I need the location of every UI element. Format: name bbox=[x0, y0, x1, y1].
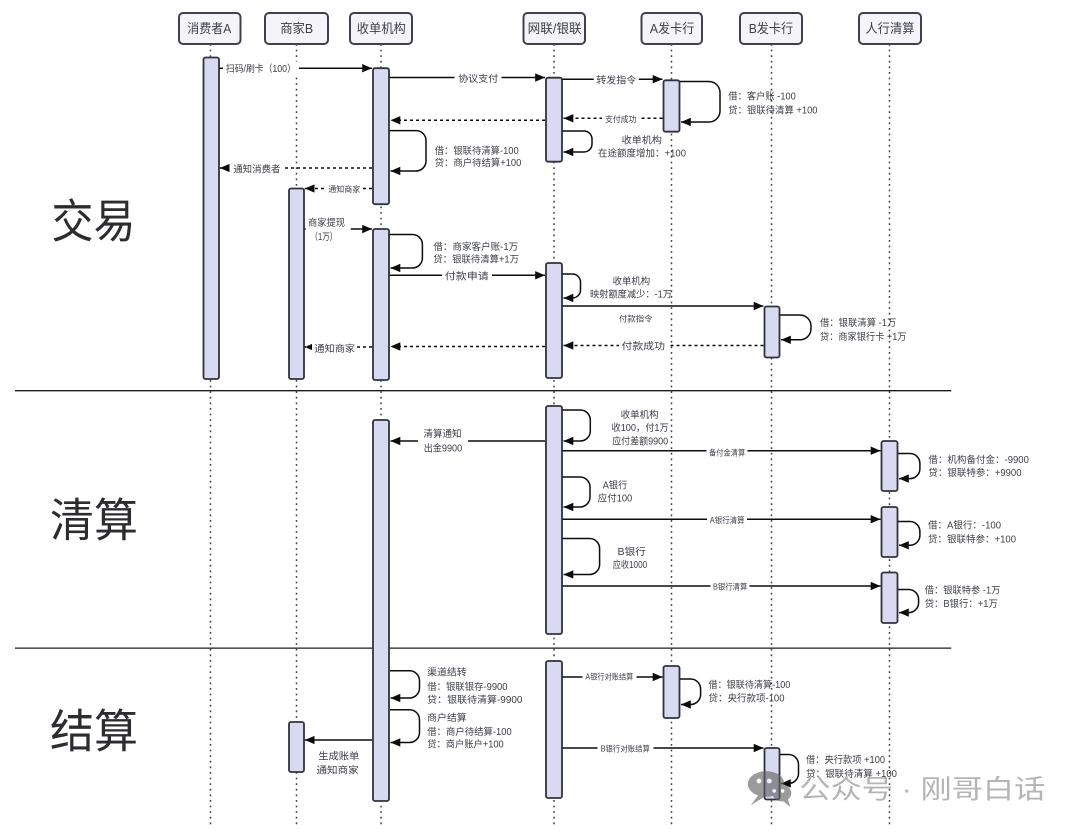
message 生成账单/通知商家 bbox=[305, 739, 372, 741]
message 转发指令 bbox=[563, 78, 663, 80]
svg-text:清算: 清算 bbox=[50, 495, 138, 547]
svg-text:通知商家: 通知商家 bbox=[328, 184, 360, 194]
svg-text:贷：B银行：+1万: 贷：B银行：+1万 bbox=[925, 597, 998, 610]
svg-text:贷：银联特参：+9900: 贷：银联特参：+9900 bbox=[928, 466, 1022, 479]
activation 消费者A bbox=[204, 58, 220, 380]
svg-text:收单机构: 收单机构 bbox=[622, 133, 662, 146]
svg-text:付款成功: 付款成功 bbox=[622, 340, 666, 353]
activation 商家B #1 bbox=[289, 189, 304, 380]
svg-text:人行清算: 人行清算 bbox=[866, 21, 915, 36]
self-loop 网联 B银行应收 bbox=[563, 539, 600, 575]
svg-text:A银行对账结算: A银行对账结算 bbox=[585, 671, 633, 681]
activation B发卡行 #1 bbox=[765, 307, 780, 358]
lifeline 网联/银联 bbox=[553, 44, 555, 825]
svg-text:B银行对账结算: B银行对账结算 bbox=[601, 743, 650, 753]
message 备付金清算 bbox=[563, 450, 881, 452]
svg-text:协议支付: 协议支付 bbox=[458, 72, 498, 85]
svg-text:贷：央行款项-100: 贷：央行款项-100 bbox=[709, 692, 786, 705]
self-loop 网联 A银行应付 bbox=[563, 477, 591, 507]
note 收单机构 / 收100，付1万 / 应付差额9900 bbox=[612, 408, 669, 448]
message 通知消费者 (dashed) bbox=[220, 167, 372, 169]
self-loop 收单机构 商户结算 bbox=[390, 710, 420, 743]
lifeline 商家B bbox=[296, 44, 298, 825]
actor box 人行清算 bbox=[859, 13, 921, 44]
svg-text:A发卡行: A发卡行 bbox=[650, 21, 695, 36]
message A银行对账结算 bbox=[563, 676, 663, 678]
svg-text:在途额度增加：+100: 在途额度增加：+100 bbox=[598, 146, 687, 159]
activation 网联 #3 bbox=[546, 406, 562, 634]
activation 收单机构 #3 bbox=[373, 420, 389, 801]
svg-text:通知商家: 通知商家 bbox=[317, 763, 359, 776]
svg-text:借：机构备付金：-9900: 借：机构备付金：-9900 bbox=[928, 453, 1029, 466]
activation 网联 #2 bbox=[546, 263, 562, 378]
self-loop 人行清算 #2 bbox=[898, 522, 920, 546]
svg-text:通知商家: 通知商家 bbox=[314, 342, 355, 355]
lifeline 收单机构 bbox=[380, 44, 382, 825]
note 渠道结转 / 借：银联银存-9900 / 贷：银联待清算-9900 bbox=[427, 665, 523, 706]
message return 网联→收单机构 (dashed) bbox=[391, 119, 546, 121]
activation A发卡行 #2 bbox=[664, 666, 680, 718]
svg-text:借：商户待结算-100: 借：商户待结算-100 bbox=[427, 725, 512, 738]
message 支付成功 (dashed) bbox=[564, 117, 663, 119]
svg-text:消费者A: 消费者A bbox=[187, 21, 231, 36]
svg-text:贷：商户账户+100: 贷：商户账户+100 bbox=[427, 738, 504, 751]
activation 网联 #1 bbox=[546, 78, 562, 162]
activation A发卡行 #1 bbox=[664, 80, 680, 131]
svg-text:借：客户账 -100: 借：客户账 -100 bbox=[728, 89, 796, 102]
message B银行对账结算 bbox=[563, 747, 764, 749]
note 借：商家客户账-1万 / 贷：银联待清算+1万 bbox=[433, 240, 519, 265]
note 借：央行款项 +100 / 贷：银联待清算 +100 bbox=[806, 753, 898, 780]
svg-text:交易: 交易 bbox=[52, 196, 136, 248]
svg-text:A银行: A银行 bbox=[603, 478, 628, 491]
self-loop 人行清算 #3 bbox=[898, 590, 919, 613]
svg-text:映射额度减少：-1万: 映射额度减少：-1万 bbox=[590, 288, 672, 301]
svg-text:借：央行款项 +100: 借：央行款项 +100 bbox=[806, 753, 886, 766]
self-loop 网联 映射额度 bbox=[563, 274, 581, 298]
message 通知商家 (dashed) bbox=[305, 346, 372, 348]
activation 收单机构 #2 bbox=[373, 229, 389, 380]
activation 收单机构 #1 bbox=[373, 68, 389, 204]
section divider 1 bbox=[15, 390, 951, 392]
message 扫码/刷卡（100） bbox=[220, 67, 373, 69]
watermark wechat icon bbox=[748, 771, 792, 807]
svg-text:借：商家客户账-1万: 借：商家客户账-1万 bbox=[433, 240, 518, 253]
actor box 商家B bbox=[265, 13, 328, 44]
svg-text:收单机构: 收单机构 bbox=[621, 408, 659, 421]
svg-text:扫码/刷卡（100）: 扫码/刷卡（100） bbox=[226, 62, 296, 75]
svg-text:出金9900: 出金9900 bbox=[424, 441, 463, 454]
svg-text:公众号 · 刚哥白话: 公众号 · 刚哥白话 bbox=[799, 775, 1045, 805]
note 借：客户账 -100 / 贷：银联待清算 +100 bbox=[728, 89, 818, 116]
self-loop A发卡行 对账记账 bbox=[680, 679, 701, 705]
message 协议支付 bbox=[390, 77, 546, 79]
activation 人行清算 #2 bbox=[882, 507, 898, 557]
self-loop 网联 清算汇总 bbox=[563, 410, 591, 441]
self-loop 网联 在途额度 bbox=[563, 131, 593, 152]
svg-text:B银行清算: B银行清算 bbox=[713, 582, 747, 592]
svg-text:借：银联清算 -1万: 借：银联清算 -1万 bbox=[820, 316, 896, 329]
svg-text:贷：银联待清算-9900: 贷：银联待清算-9900 bbox=[427, 693, 523, 706]
message 商家提现（1万） bbox=[305, 228, 373, 230]
actor box B发卡行 bbox=[740, 13, 802, 44]
svg-text:收100，付1万: 收100，付1万 bbox=[612, 421, 669, 434]
activation 网联 #4 bbox=[546, 661, 562, 798]
self-loop A发卡行 记账 bbox=[680, 82, 720, 123]
svg-text:付款申请: 付款申请 bbox=[445, 270, 489, 283]
note 商户结算 / 借：商户待结算-100 / 贷：商户账户+100 bbox=[427, 711, 512, 751]
svg-text:商户结算: 商户结算 bbox=[427, 711, 467, 724]
message 清算通知/出金9900 bbox=[391, 440, 546, 442]
activation B发卡行 #2 bbox=[765, 748, 780, 800]
svg-text:结算: 结算 bbox=[50, 706, 138, 758]
svg-text:贷：银联特参：+100: 贷：银联特参：+100 bbox=[928, 533, 1017, 546]
svg-text:借：银联待清算-100: 借：银联待清算-100 bbox=[709, 678, 791, 691]
self-loop 人行清算 #1 bbox=[898, 454, 920, 479]
note 借：银联清算 -1万 / 贷：商家银行卡 +1万 bbox=[820, 316, 907, 343]
svg-text:借：银联待清算-100: 借：银联待清算-100 bbox=[435, 144, 520, 157]
svg-text:（1万）: （1万） bbox=[310, 231, 337, 243]
lifeline 人行清算 bbox=[889, 44, 891, 825]
self-loop B发卡行 对账记账 bbox=[780, 755, 799, 784]
svg-text:应收1000: 应收1000 bbox=[613, 558, 648, 571]
svg-text:贷：商家银行卡 +1万: 贷：商家银行卡 +1万 bbox=[820, 330, 907, 343]
self-loop B发卡行 记账 bbox=[780, 315, 811, 340]
message 付款指令 bbox=[563, 305, 764, 307]
lifeline A发卡行 bbox=[671, 44, 673, 825]
svg-text:借：银联特参 -1万: 借：银联特参 -1万 bbox=[925, 584, 1001, 597]
svg-text:网联/银联: 网联/银联 bbox=[528, 21, 582, 36]
message 付款成功 (dashed) bbox=[564, 345, 764, 347]
message 通知商家 (dashed, small) bbox=[305, 188, 372, 190]
svg-text:收单机构: 收单机构 bbox=[613, 274, 651, 287]
svg-text:商家B: 商家B bbox=[280, 21, 313, 36]
note B银行 / 应收1000 bbox=[613, 545, 648, 571]
svg-text:贷：商户待结算+100: 贷：商户待结算+100 bbox=[435, 156, 522, 169]
note 借：银联待清算-100 / 贷：央行款项-100 bbox=[709, 678, 791, 705]
svg-text:A银行清算: A银行清算 bbox=[710, 515, 745, 525]
activation 人行清算 #1 bbox=[882, 441, 898, 491]
self-loop 收单机构 记账 bbox=[390, 131, 427, 171]
svg-text:付款指令: 付款指令 bbox=[619, 314, 653, 324]
svg-text:生成账单: 生成账单 bbox=[318, 750, 359, 763]
svg-text:贷：银联待清算+1万: 贷：银联待清算+1万 bbox=[433, 252, 519, 265]
svg-text:备付金清算: 备付金清算 bbox=[709, 447, 745, 457]
svg-text:收单机构: 收单机构 bbox=[357, 21, 406, 36]
actor box A发卡行 bbox=[642, 13, 703, 44]
note 借：A银行：-100 / 贷：银联特参：+100 bbox=[928, 519, 1017, 546]
section divider 2 bbox=[15, 647, 951, 649]
lifeline 消费者A bbox=[210, 44, 212, 825]
actor box 网联/银联 bbox=[524, 13, 586, 44]
lifeline B发卡行 bbox=[771, 44, 773, 825]
svg-text:渠道结转: 渠道结转 bbox=[427, 665, 467, 678]
message B银行清算 bbox=[563, 585, 881, 587]
svg-text:转发指令: 转发指令 bbox=[596, 74, 636, 87]
self-loop 收单机构 提现记账 bbox=[390, 235, 423, 269]
message A银行清算 bbox=[563, 518, 881, 520]
message 付款申请 bbox=[390, 274, 546, 276]
note 借：机构备付金：-9900 / 贷：银联特参：+9900 bbox=[928, 453, 1029, 479]
actor box 消费者A bbox=[179, 13, 241, 44]
note 收单机构 / 在途额度增加：+100 bbox=[598, 133, 687, 159]
actor box 收单机构 bbox=[350, 13, 412, 44]
svg-text:支付成功: 支付成功 bbox=[605, 114, 637, 124]
self-loop 收单机构 渠道结转 bbox=[390, 671, 420, 698]
activation 人行清算 #3 bbox=[882, 573, 898, 624]
svg-text:借：银联银存-9900: 借：银联银存-9900 bbox=[427, 680, 508, 693]
svg-text:借：A银行：-100: 借：A银行：-100 bbox=[928, 519, 1002, 532]
svg-text:商家提现: 商家提现 bbox=[308, 216, 345, 229]
svg-text:应付差额9900: 应付差额9900 bbox=[612, 434, 669, 447]
svg-text:应付100: 应付100 bbox=[598, 491, 633, 504]
svg-text:B银行: B银行 bbox=[618, 545, 647, 558]
message return 网联→收单机构 (dashed) bbox=[391, 346, 546, 348]
svg-text:通知消费者: 通知消费者 bbox=[233, 162, 280, 175]
note 收单机构 / 映射额度减少：-1万 bbox=[590, 274, 672, 300]
svg-text:B发卡行: B发卡行 bbox=[749, 21, 794, 36]
note A银行 / 应付100 bbox=[598, 478, 633, 504]
note 借：银联特参 -1万 / 贷：B银行：+1万 bbox=[925, 584, 1001, 610]
svg-text:贷：银联待清算 +100: 贷：银联待清算 +100 bbox=[728, 104, 818, 117]
svg-text:清算通知: 清算通知 bbox=[423, 427, 461, 440]
activation 商家B #2 bbox=[289, 722, 304, 772]
note 借：银联待清算-100 / 贷：商户待结算+100 bbox=[435, 144, 522, 169]
